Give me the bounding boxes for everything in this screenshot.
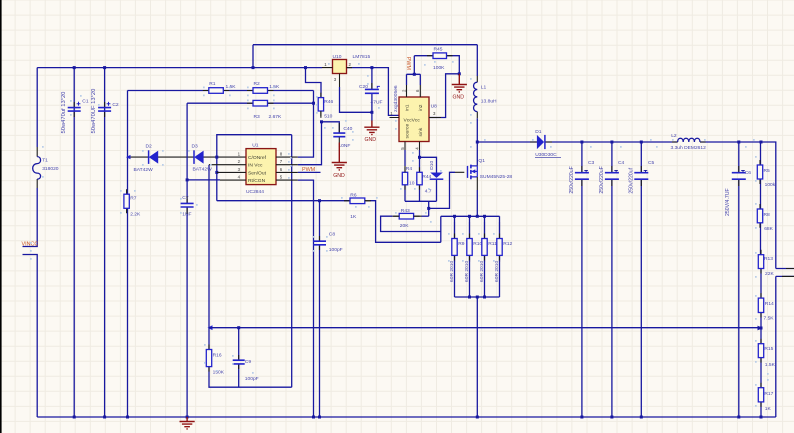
resistor R7: [126, 189, 128, 213]
svg-text:D3: D3: [192, 144, 199, 150]
resistor R3: [247, 102, 274, 104]
off-sheet port on right edge: [776, 269, 794, 277]
resistor R9: [454, 234, 456, 261]
wire U10 in junction to R46 top: [306, 68, 322, 98]
node junctions: [73, 66, 76, 69]
svg-text:VccVcc: VccVcc: [404, 118, 421, 124]
svg-text:R1: R1: [209, 81, 216, 87]
wire C5 branch: [640, 142, 642, 417]
wire R45 right leg to gnd node: [447, 56, 460, 74]
resistor R13: [760, 250, 762, 274]
resistor R2: [247, 90, 274, 92]
svg-text:T1: T1: [42, 158, 48, 164]
ground GND under C20: [371, 121, 373, 128]
svg-text:R46: R46: [324, 99, 333, 105]
svg-text:UC2844: UC2844: [246, 189, 264, 195]
wire C1 branch: [73, 68, 75, 417]
svg-text:C5: C5: [648, 160, 655, 166]
svg-text:13.8uH: 13.8uH: [481, 99, 497, 105]
svg-text:318020: 318020: [42, 166, 59, 172]
wire pin2 feedback vertical: [208, 165, 210, 328]
wire C7 bottom to rail: [186, 207, 188, 417]
wire comp loop vertical down to R16/C9: [291, 135, 293, 388]
junction arrow at R7 top: [126, 155, 131, 159]
svg-text:2.67K: 2.67K: [269, 114, 283, 120]
capacitor C4: [611, 166, 613, 186]
wire C2 branch: [104, 68, 106, 417]
wire pin1 bypass loop top: [217, 135, 292, 201]
wire R3 line: [187, 102, 313, 104]
svg-text:zxgd3005e6: zxgd3005e6: [393, 85, 399, 112]
capacitor C1: [73, 102, 75, 117]
svg-text:C/ONref: C/ONref: [248, 155, 267, 161]
wire L1 branch top: [476, 45, 478, 76]
regulator U10 LM7815: [333, 60, 347, 74]
wire x127 vertical through R7: [127, 91, 129, 195]
wire R3/C7 vertical: [186, 103, 188, 203]
inductor L1: [476, 76, 478, 118]
svg-text:Sen/Out: Sen/Out: [248, 170, 267, 176]
svg-text:1.5K: 1.5K: [226, 84, 237, 90]
svg-text:100pF: 100pF: [329, 247, 343, 253]
wire in1/in2 bus: [407, 74, 421, 85]
svg-text:GND: GND: [453, 94, 465, 100]
resistor R46: [320, 93, 322, 116]
capacitor C2: [104, 102, 106, 117]
svg-text:C7: C7: [182, 195, 189, 201]
wire sink to D10 top: [420, 157, 437, 172]
svg-text:100K: 100K: [433, 65, 445, 71]
wire U10 out to C20 and U8: [347, 68, 400, 116]
svg-text:BAT42W: BAT42W: [134, 167, 154, 173]
U1 pin stubs: [209, 165, 246, 180]
svg-text:100k: 100k: [765, 182, 776, 188]
wire C9 branch: [238, 328, 240, 388]
wire sense top bus: [441, 215, 500, 217]
svg-text:C6: C6: [745, 170, 752, 176]
faint pin hotspot markers (decorative): [30, 61, 769, 407]
resistor R6: [344, 200, 371, 202]
wire C6 branch: [738, 142, 740, 417]
svg-text:GND: GND: [365, 137, 377, 143]
svg-text:PWM: PWM: [405, 57, 411, 71]
wire C20 branch: [371, 68, 373, 121]
diode D2 BAT42W: [149, 151, 158, 164]
wire R45 left leg: [414, 56, 433, 75]
svg-text:BAT42W: BAT42W: [193, 167, 213, 173]
resistor R12: [499, 234, 501, 261]
svg-text:250v/220uF: 250v/220uF: [599, 166, 605, 193]
svg-text:R16: R16: [213, 352, 222, 358]
svg-text:R45: R45: [434, 46, 443, 52]
svg-text:C4: C4: [618, 160, 625, 166]
resistor R5: [759, 160, 761, 184]
svg-text:60R 2010: 60R 2010: [494, 261, 500, 282]
driver U8 ZXGD3005: [399, 97, 429, 142]
svg-text:R2: R2: [254, 81, 261, 87]
svg-text:50w470UF 13*20: 50w470UF 13*20: [91, 89, 97, 134]
svg-text:60R 2010: 60R 2010: [479, 261, 485, 282]
resistor R17: [760, 383, 762, 407]
wire U8 source pin down to R4: [404, 150, 406, 166]
svg-text:LM7815: LM7815: [353, 54, 371, 60]
capacitor C6: [738, 166, 740, 186]
wire R16 C9 bottom loop: [209, 328, 292, 388]
svg-text:1K: 1K: [765, 406, 772, 412]
wire sense bottom bus: [455, 296, 500, 298]
resistor R4: [404, 167, 406, 190]
chassis ground at bottom rail: [186, 417, 188, 421]
svg-text:7.5K: 7.5K: [764, 316, 775, 322]
wire driver bottom bus: [405, 179, 437, 201]
svg-text:22K: 22K: [765, 271, 774, 277]
wire L1 bottom to Q1 drain: [476, 118, 478, 165]
svg-text:R4: R4: [406, 166, 413, 172]
svg-text:D1: D1: [535, 129, 542, 135]
wire R6 right loop: [370, 201, 441, 243]
svg-text:U1: U1: [252, 143, 259, 149]
svg-text:60R 2010: 60R 2010: [464, 261, 470, 282]
svg-text:R5: R5: [764, 168, 771, 174]
wire sense resistor legs: [455, 222, 500, 239]
svg-text:VINCC: VINCC: [22, 241, 39, 247]
svg-text:C40: C40: [343, 126, 352, 132]
svg-text:PWM: PWM: [302, 167, 316, 173]
svg-text:250v/220uF: 250v/220uF: [569, 166, 575, 193]
wire pin6 PWM stub: [298, 171, 321, 173]
resistor R15: [760, 339, 762, 363]
wire R43 node riser: [428, 201, 430, 216]
svg-text:1NF: 1NF: [182, 212, 191, 218]
capacitor C9: [238, 355, 240, 369]
svg-text:R14: R14: [765, 301, 774, 307]
svg-text:100pF: 100pF: [245, 376, 259, 382]
wire sense center tap to rail: [476, 297, 478, 417]
wire gate feed: [429, 172, 455, 208]
diode D10: [430, 173, 443, 178]
wire top feed y44.7: [253, 45, 477, 68]
diode D3 BAT42W: [194, 151, 203, 164]
capacitor C7: [186, 196, 188, 214]
svg-text:10: 10: [409, 180, 415, 186]
diode D1 U30D30C: [530, 141, 552, 143]
svg-text:D10: D10: [429, 161, 435, 170]
svg-text:150K: 150K: [213, 370, 225, 376]
svg-text:C2: C2: [112, 102, 119, 108]
svg-text:47UF: 47UF: [371, 100, 383, 106]
svg-text:250v/220uf: 250v/220uf: [628, 167, 634, 193]
wire pin3 sense line to R6: [217, 200, 350, 202]
wire R1 R2 feed line: [128, 90, 314, 92]
wire feedback line y328: [208, 325, 213, 330]
resistor R14: [760, 293, 762, 317]
svg-text:60R 2010: 60R 2010: [449, 261, 455, 282]
svg-text:R3: R3: [254, 114, 261, 120]
svg-text:R9: R9: [458, 241, 465, 247]
svg-text:in2: in2: [418, 104, 424, 111]
svg-text:R12: R12: [503, 241, 512, 247]
svg-text:3.3uh DEM2612: 3.3uh DEM2612: [671, 145, 707, 151]
svg-text:IN Vcc: IN Vcc: [248, 163, 263, 169]
wire C7 to pin4: [187, 179, 220, 181]
wire pin8 riser: [298, 91, 314, 158]
svg-text:SUM45N25-28: SUM45N25-28: [480, 174, 513, 180]
capacitor C40: [338, 123, 340, 143]
transistor Q1 SUM45N25-28: [455, 171, 464, 173]
svg-text:R11: R11: [488, 241, 497, 247]
svg-text:1K: 1K: [350, 214, 357, 220]
svg-text:1.5K: 1.5K: [765, 362, 776, 368]
svg-text:20K: 20K: [400, 223, 409, 229]
svg-text:Rt/CGN: Rt/CGN: [248, 178, 266, 184]
svg-text:2.2K: 2.2K: [130, 212, 141, 218]
svg-text:510: 510: [324, 114, 332, 120]
capacitor C5: [640, 166, 642, 186]
fuse T1: [36, 147, 38, 188]
wire output line y142: [477, 141, 537, 143]
svg-text:GND: GND: [333, 173, 345, 179]
capacitor C20: [371, 83, 373, 89]
svg-text:Q1: Q1: [478, 158, 485, 164]
resistor R44: [419, 167, 421, 190]
capacitor C8: [319, 236, 321, 250]
ground GND at R45: [458, 74, 460, 85]
svg-text:C8: C8: [329, 232, 336, 238]
wire U10 gnd pin to C20 gnd: [340, 87, 372, 112]
svg-text:C9: C9: [245, 359, 252, 365]
wire output divider chain: [760, 142, 763, 417]
resistor R10: [469, 234, 471, 261]
svg-text:source: source: [404, 124, 410, 139]
wire left input vertical with VINCC break: [36, 68, 38, 147]
resistor R1: [203, 90, 230, 92]
svg-text:68K: 68K: [764, 226, 773, 232]
wire U8 sink pin to gnd node: [429, 74, 459, 118]
svg-text:R6: R6: [350, 192, 357, 198]
wire bottom ground rail: [37, 416, 776, 418]
svg-text:R17: R17: [764, 391, 773, 397]
svg-text:C20: C20: [359, 84, 368, 90]
wire pin5 down to rail: [298, 180, 314, 417]
resistor R8: [759, 204, 761, 228]
capacitor C3: [581, 166, 583, 186]
wire diode line to U1 pin1: [128, 156, 247, 158]
wire Q1 source down to sense bus: [476, 190, 478, 216]
wire R43 right: [422, 215, 429, 217]
svg-text:L2: L2: [671, 133, 677, 139]
svg-text:R13: R13: [764, 256, 773, 262]
svg-text:L1: L1: [481, 85, 487, 91]
wire C8 branch: [319, 201, 321, 417]
wire pin7 to R46/C40 node: [298, 122, 322, 165]
inductor L2: [672, 141, 706, 143]
wire U8 sink pin down to R44/D10: [419, 150, 421, 172]
svg-text:R15: R15: [764, 346, 773, 352]
resistor R45: [427, 55, 453, 57]
svg-text:sink: sink: [418, 127, 424, 136]
svg-text:C1: C1: [82, 98, 89, 104]
svg-text:R10: R10: [473, 241, 482, 247]
resistor R43: [393, 215, 419, 217]
svg-text:50w470uf 13*20: 50w470uf 13*20: [61, 92, 67, 134]
svg-text:R7: R7: [130, 195, 137, 201]
svg-text:C3: C3: [588, 160, 595, 166]
wire sense bus left riser: [440, 216, 442, 242]
svg-text:U8: U8: [431, 103, 438, 109]
wire C3 branch: [581, 142, 583, 417]
svg-text:D2: D2: [146, 144, 153, 150]
svg-text:R43: R43: [401, 208, 410, 214]
svg-text:U10: U10: [333, 54, 342, 60]
svg-text:R8: R8: [764, 212, 771, 218]
IC U1 UC2844: [246, 149, 276, 185]
wire top-left rail VCC: [37, 67, 322, 69]
resistor R16: [208, 345, 210, 372]
svg-text:250V/4.7UF: 250V/4.7UF: [725, 188, 731, 216]
wire R43 left loop: [381, 216, 441, 231]
svg-text:in1: in1: [404, 104, 410, 111]
svg-text:10NF: 10NF: [338, 143, 350, 149]
wire C4 branch: [611, 142, 613, 417]
ground GND under C40: [338, 143, 340, 163]
wire R46 bottom corner to C40: [322, 122, 340, 133]
resistor R11: [484, 234, 486, 261]
